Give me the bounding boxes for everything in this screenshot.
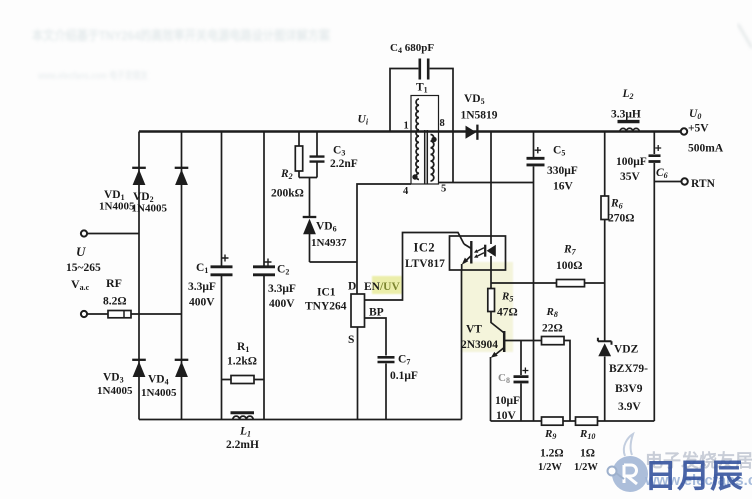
svg-text:35V: 35V (620, 171, 641, 183)
capacitor C1 3.3uF 400V (188, 255, 233, 309)
svg-text:1N4005: 1N4005 (97, 385, 133, 397)
svg-text:100μF: 100μF (616, 156, 647, 168)
svg-text:TNY264: TNY264 (305, 301, 347, 313)
faint removed-text watermark row 1 (32, 28, 331, 43)
svg-text:1/2W: 1/2W (538, 462, 562, 473)
svg-text:10μF: 10μF (495, 395, 520, 407)
wire AC input upper (87, 233, 139, 235)
svg-text:3.9V: 3.9V (618, 401, 641, 413)
svg-text:EN/UV: EN/UV (364, 281, 400, 293)
svg-text:D: D (348, 281, 356, 293)
wire 680pF loop left stub (390, 69, 418, 132)
inductor L2 3.3uH (611, 88, 641, 132)
resistor R10 1ohm 1/2W (574, 417, 598, 473)
highlight tint behind EN/UV label (372, 276, 402, 294)
wire C8 branch (520, 341, 522, 422)
optocoupler U2 LTV817 (405, 236, 506, 270)
resistor RF 8.2ohm fusible (103, 276, 131, 318)
terminal AC input upper (81, 230, 87, 236)
capacitor C2 3.3uF 400V (253, 259, 296, 311)
svg-text:0.1μF: 0.1μF (390, 370, 418, 382)
svg-text:C4 680pF: C4 680pF (390, 42, 434, 55)
svg-text:LTV817: LTV817 (405, 258, 445, 270)
wire R1 taps (222, 379, 265, 381)
svg-text:10V: 10V (496, 410, 517, 422)
svg-text:VT: VT (466, 324, 482, 336)
diode VD6 1N4937 clamp (303, 217, 347, 249)
capacitor C3 2.2nF (310, 145, 358, 171)
svg-text:270Ω: 270Ω (608, 213, 634, 225)
svg-text:1N4005: 1N4005 (141, 387, 177, 399)
svg-text:RF: RF (106, 276, 122, 290)
wire IC1 EN to optocoupler (365, 233, 465, 301)
diode VD3 1N4005 (97, 360, 146, 397)
wire AC input lower through RF (87, 313, 182, 315)
svg-text:R2: R2 (280, 168, 293, 181)
wire IC1 source to ground bus (357, 327, 359, 420)
resistor R5 47ohm (488, 289, 518, 319)
svg-text:U: U (76, 244, 86, 259)
capacitor C6 100uF 35V (616, 145, 668, 183)
svg-text:R6: R6 (610, 198, 623, 211)
svg-text:IC2: IC2 (414, 241, 436, 255)
capacitor C8 10uF 10V (495, 368, 529, 423)
svg-text:4: 4 (403, 186, 409, 197)
svg-text:C1: C1 (196, 262, 208, 275)
resistor R1 1.2kohm (227, 341, 257, 384)
wire 680pF loop right stub (430, 69, 453, 183)
svg-text:R9: R9 (544, 428, 556, 441)
svg-text:400V: 400V (189, 297, 215, 309)
wire RTN stub (654, 181, 681, 183)
resistor R7 100ohm (556, 244, 585, 287)
svg-text:1N4937: 1N4937 (311, 237, 347, 249)
wire primary bottom bus (139, 419, 462, 421)
svg-text:3.3μF: 3.3μF (268, 283, 296, 295)
svg-text:330μF: 330μF (547, 165, 578, 177)
terminal RTN (681, 178, 687, 184)
wire feedback node horizontal (R7 line) (491, 282, 605, 284)
svg-text:R1: R1 (237, 341, 249, 354)
wire VT emitter down (490, 357, 492, 421)
wire C6 branch (653, 132, 655, 422)
svg-text:C5: C5 (553, 145, 565, 158)
diode VD1 1N4005 (99, 168, 146, 213)
wire C2 branch (263, 132, 265, 420)
transformer T1 (403, 82, 446, 198)
wire opto emitter to primary ground (461, 270, 463, 420)
wire R6 / VDZ branch (604, 132, 606, 422)
resistor R2 200kohm (271, 146, 304, 200)
transistor VT 2N3904 (461, 324, 504, 358)
svg-text:www.elecfans.com 电子发烧友: www.elecfans.com 电子发烧友 (37, 69, 148, 82)
faint removed-text watermark row 2 (37, 69, 148, 82)
svg-text:C8: C8 (498, 372, 510, 385)
node U0 +5V 500mA labels (688, 108, 724, 155)
svg-text:15~265: 15~265 (66, 262, 101, 274)
svg-text:2.2nF: 2.2nF (330, 158, 358, 170)
svg-text:VDZ: VDZ (614, 344, 639, 356)
svg-text:T1: T1 (416, 82, 428, 95)
capacitor C7 0.1uF bypass (378, 354, 418, 383)
svg-text:16V: 16V (553, 181, 574, 193)
svg-text:8.2Ω: 8.2Ω (103, 296, 127, 308)
highlight tint behind VT / 47ohm region (461, 262, 513, 352)
svg-text:RTN: RTN (691, 178, 716, 190)
wire left bridge leg (138, 132, 140, 420)
svg-text:1.2Ω: 1.2Ω (540, 448, 564, 460)
svg-text:C2: C2 (277, 264, 289, 277)
wire clamp diode branch (309, 178, 311, 263)
svg-text:2N3904: 2N3904 (461, 339, 498, 351)
wire second bridge leg (181, 132, 183, 420)
diode VD4 1N4005 (141, 360, 188, 399)
svg-text:U0: U0 (689, 108, 701, 121)
svg-text:B3V9: B3V9 (615, 383, 643, 395)
wire clamp junction bar (299, 177, 317, 179)
wire C5 branch down to secondary ground (533, 132, 535, 422)
svg-text:47Ω: 47Ω (497, 307, 518, 319)
resistor R9 1.2ohm 1/2W (538, 417, 564, 473)
svg-text:日月辰: 日月辰 (644, 459, 743, 495)
svg-text:Ui: Ui (358, 114, 369, 127)
svg-text:VD6: VD6 (316, 221, 337, 234)
wire VT base to R8 (504, 340, 541, 342)
wire IC1 BP to C7 (365, 318, 387, 420)
svg-text:C6: C6 (656, 167, 668, 180)
inductor L1 2.2mH (226, 413, 259, 451)
svg-text:C3: C3 (333, 145, 345, 158)
terminal AC input lower (81, 311, 87, 317)
svg-text:IC1: IC1 (317, 287, 336, 299)
capacitor C5 330uF 16V (527, 145, 578, 193)
wire clamp to drain (310, 261, 358, 263)
svg-text:1N5819: 1N5819 (461, 110, 498, 122)
svg-text:100Ω: 100Ω (556, 260, 582, 272)
watermark logo circle (608, 434, 649, 492)
wire +5V bus to opto LED (490, 132, 492, 237)
wire R2 branch (298, 132, 300, 178)
diode VD5 1N5819 output rectifier (461, 93, 498, 140)
svg-text:22Ω: 22Ω (542, 323, 563, 335)
svg-text:L1: L1 (239, 426, 251, 439)
svg-text:本文介绍基于TNY264的高效率开关电源电路设计图详解方案: 本文介绍基于TNY264的高效率开关电源电路设计图详解方案 (32, 28, 331, 43)
diode VD2 1N4005 (132, 168, 189, 215)
wire R5 to VT collector (491, 312, 504, 334)
svg-text:BZX79-: BZX79- (609, 363, 648, 375)
wire transformer pin4 to drain (357, 184, 411, 294)
svg-text:1N4005: 1N4005 (99, 201, 135, 213)
terminal +5V output (681, 128, 687, 134)
svg-text:200kΩ: 200kΩ (271, 188, 304, 200)
svg-text:2.2mH: 2.2mH (226, 439, 259, 451)
wire transformer pin5 to C5 (439, 182, 534, 184)
node U input labels (66, 244, 101, 292)
svg-text:L2: L2 (622, 88, 634, 101)
svg-text:VD4: VD4 (148, 374, 169, 387)
svg-text:R7: R7 (563, 244, 577, 257)
opto emission arrows (478, 248, 485, 256)
opto LED (490, 236, 492, 244)
svg-text:Va.c: Va.c (71, 277, 90, 292)
wire R8 right end down to sense node (564, 341, 570, 422)
svg-text:S: S (348, 334, 354, 346)
svg-text:1: 1 (404, 121, 409, 132)
svg-text:1.2kΩ: 1.2kΩ (227, 356, 257, 368)
resistor R8 22ohm (542, 306, 565, 345)
svg-text:400V: 400V (269, 298, 295, 310)
IC U1 TNY264 switcher (305, 281, 384, 347)
wire C3 branch (316, 132, 318, 178)
resistor R6 270ohm (601, 196, 634, 225)
faint corner mark top-right (738, 24, 752, 48)
wire top DC bus (139, 130, 681, 133)
wire opto LED cathode down (490, 270, 492, 289)
svg-text:VD3: VD3 (103, 372, 124, 385)
svg-text:8: 8 (440, 118, 445, 129)
svg-text:+5V: +5V (688, 123, 709, 135)
opto phototransistor (470, 241, 472, 264)
transformer phase dot primary (412, 174, 417, 179)
svg-text:BP: BP (369, 307, 384, 319)
svg-text:VD5: VD5 (464, 93, 485, 106)
svg-text:R8: R8 (546, 306, 558, 319)
wire secondary ground bus (491, 420, 655, 422)
zener VDZ BZX79-B3V9 (598, 338, 648, 413)
svg-text:3.3μH: 3.3μH (611, 109, 641, 121)
capacitor C4 680pF across transformer (390, 42, 434, 80)
svg-text:1N4005: 1N4005 (132, 203, 168, 215)
transformer phase dot secondary (431, 137, 436, 142)
svg-text:5: 5 (441, 184, 446, 195)
svg-text:500mA: 500mA (688, 143, 724, 155)
wire C1 branch (221, 132, 223, 420)
svg-text:C7: C7 (398, 354, 410, 367)
svg-text:3.3μF: 3.3μF (188, 281, 216, 293)
